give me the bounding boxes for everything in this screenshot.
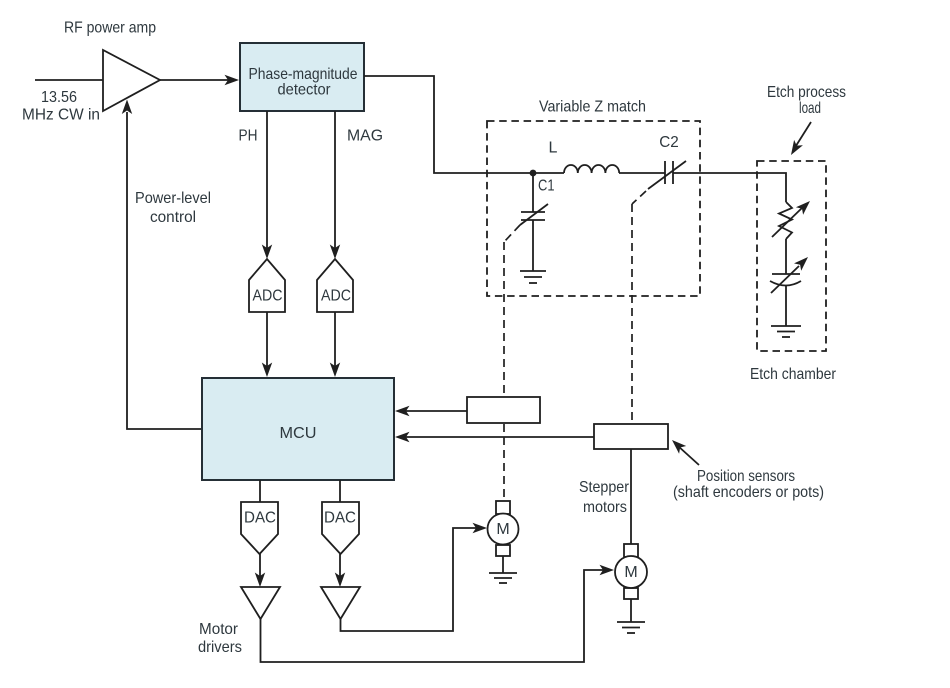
svg-text:DAC: DAC <box>244 510 276 527</box>
svg-text:Variable Z match: Variable Z match <box>539 99 646 116</box>
wire detector to match network <box>364 76 564 173</box>
wire driver2 to motor M1 <box>341 523 488 631</box>
svg-text:MAG: MAG <box>347 128 383 145</box>
dashed box Variable Z match <box>487 121 700 296</box>
label Stepper motors <box>579 479 630 516</box>
wire ADC1 to MCU <box>262 312 272 377</box>
ground motor M1 <box>489 556 517 583</box>
motor driver 1 <box>241 587 280 619</box>
wire MCU to DAC1 <box>259 480 261 502</box>
ground C1 <box>520 271 546 283</box>
wire amp to detector <box>160 75 239 85</box>
MCU U2 <box>202 378 394 480</box>
svg-text:Position sensors: Position sensors <box>697 468 795 485</box>
wire DAC2 to driver2 <box>335 554 345 587</box>
ADC U3 <box>249 259 285 312</box>
svg-text:PH: PH <box>239 128 258 145</box>
svg-text:C1: C1 <box>538 178 555 195</box>
resistor R1 variable <box>772 201 810 239</box>
svg-text:drivers: drivers <box>198 639 242 656</box>
wire sensor2 to motor M2 <box>630 449 632 544</box>
svg-text:Motor: Motor <box>199 621 239 638</box>
node A junction <box>530 170 537 177</box>
svg-text:MHz CW in: MHz CW in <box>22 107 100 124</box>
svg-text:L: L <box>549 140 558 157</box>
svg-text:Etch process: Etch process <box>767 84 846 101</box>
wire MAG detector to ADC2 <box>330 111 340 259</box>
position sensor 2 <box>594 424 668 449</box>
DAC U5 <box>241 502 278 554</box>
dashed linkage C1 to motor M1 <box>504 225 520 501</box>
svg-text:Stepper: Stepper <box>579 479 630 496</box>
svg-text:Etch chamber: Etch chamber <box>750 366 837 383</box>
wire MCU to DAC2 <box>339 480 341 502</box>
wire power-level control <box>122 100 202 430</box>
ground etch chamber <box>771 326 801 337</box>
dashed linkage C2 to motor M2 <box>632 191 646 424</box>
wire C1 to ground <box>532 220 534 271</box>
svg-text:13.56: 13.56 <box>41 89 77 106</box>
svg-text:DAC: DAC <box>324 510 356 527</box>
wire sensor1 to MCU <box>395 406 467 416</box>
svg-text:load: load <box>799 100 821 117</box>
wire PH detector to ADC1 <box>262 111 272 259</box>
ADC U4 <box>317 259 353 312</box>
wire node to C1 <box>532 173 534 212</box>
label Position sensors (shaft encoders or pots) <box>672 440 824 501</box>
svg-text:ADC: ADC <box>321 288 351 305</box>
wire driver1 to motor M2 <box>261 565 615 662</box>
svg-text:M: M <box>624 564 637 581</box>
amplifier RF power amp <box>103 50 160 111</box>
label 13.56 MHz CW in <box>22 89 100 124</box>
svg-text:MCU: MCU <box>280 425 317 442</box>
svg-text:detector: detector <box>278 82 332 99</box>
label Motor drivers <box>198 621 242 656</box>
detector U1 Phase-magnitude detector <box>240 43 364 111</box>
svg-text:(shaft encoders or pots): (shaft encoders or pots) <box>673 484 824 501</box>
dashed box Etch chamber <box>757 161 826 351</box>
svg-text:control: control <box>150 209 196 226</box>
svg-text:RF power amp: RF power amp <box>64 20 156 37</box>
svg-text:Phase-magnitude: Phase-magnitude <box>249 66 358 83</box>
capacitor variable etch <box>770 257 808 293</box>
motor M2 <box>615 544 647 599</box>
inductor L <box>564 165 619 173</box>
wire C2 to etch chamber <box>673 173 786 202</box>
svg-text:ADC: ADC <box>253 288 283 305</box>
wire sensor2 to MCU <box>395 432 594 442</box>
label Power-level control <box>135 190 211 226</box>
svg-text:Power-level: Power-level <box>135 190 211 207</box>
DAC U6 <box>322 502 359 554</box>
svg-text:M: M <box>496 521 509 538</box>
wire DAC1 to driver1 <box>255 554 265 587</box>
ground motor M2 <box>617 599 645 633</box>
motor driver 2 <box>321 587 360 619</box>
capacitor C2 <box>648 161 686 189</box>
svg-text:motors: motors <box>583 499 627 516</box>
label Etch process load <box>767 84 846 155</box>
position sensor 1 <box>467 397 540 423</box>
wire inductor to C2 <box>619 172 665 174</box>
wire capacitor etch to ground <box>785 286 787 326</box>
capacitor C1 <box>520 204 548 225</box>
svg-text:C2: C2 <box>659 134 679 151</box>
motor M1 <box>488 501 519 556</box>
wire RF input <box>35 79 104 81</box>
wire resistor to capacitor etch <box>785 239 787 274</box>
wire ADC2 to MCU <box>330 312 340 377</box>
